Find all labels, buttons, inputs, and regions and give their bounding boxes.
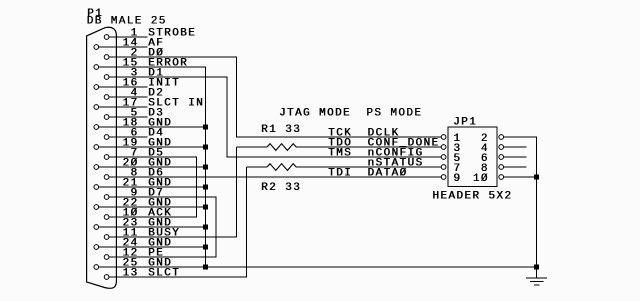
junction 21 GND [203, 185, 208, 190]
wire D0 to TCK/DCLK (vertical) [236, 57, 237, 138]
junction 24 GND [203, 245, 208, 250]
P1 pin 1Ø (ACK) [104, 208, 197, 220]
wire D1 to TMS/nCONFIG (vertical) [227, 77, 228, 158]
P1 pin 19 (GND) [94, 138, 206, 150]
svg-text:9: 9 [453, 173, 461, 185]
wire TMS/nCONFIG row [227, 157, 441, 158]
JP1 pin 4 [481, 143, 527, 155]
resistor R2 33 [267, 164, 296, 171]
svg-text:R2 33: R2 33 [261, 182, 301, 194]
P1 pin 17 (SLCT IN) [94, 98, 204, 110]
svg-text:13: 13 [122, 268, 138, 280]
wire TDO/CONF_DONE row (right of R1) [296, 147, 441, 148]
JP1 pin 8 [481, 163, 527, 175]
wire JP1 pin2 to ground (vertical) [536, 137, 537, 268]
svg-text:DB MALE 25: DB MALE 25 [87, 16, 167, 28]
junction 20 GND [203, 165, 208, 170]
wire ERROR to GND bus (vertical) [205, 67, 206, 268]
header JP1 body [448, 127, 497, 187]
svg-text:SLCT: SLCT [148, 268, 180, 280]
svg-text:HEADER 5X2: HEADER 5X2 [432, 191, 512, 203]
svg-text:PS MODE: PS MODE [366, 108, 422, 120]
JP1 pin 9 [441, 173, 461, 185]
P1 pin 15 (ERROR) [94, 58, 206, 70]
junction 25 GND [203, 265, 208, 270]
JP1 pin 6 [481, 153, 527, 165]
P1 pin 8 (D6) [104, 168, 442, 180]
JP1 pin 1 [441, 133, 461, 145]
ground symbol [526, 277, 547, 285]
wire TDO/CONF_DONE row (left of R1) [237, 147, 268, 148]
junction 19 GND [203, 145, 208, 150]
junction 22 GND [203, 205, 208, 210]
P1 pin 3 (D1) [104, 68, 227, 80]
wire nSTATUS row (left of R2) [246, 167, 267, 168]
wire D7 to PE (loopback vertical) [216, 197, 217, 258]
P1 pin 24 (GND) [94, 238, 206, 250]
JP1 pin 5 [441, 153, 461, 165]
junction ground wire / 25 GND [534, 265, 539, 270]
wire nSTATUS row (right of R2) [296, 167, 441, 168]
JP1 pin 7 [441, 163, 461, 175]
JP1 pin 3 [441, 143, 461, 155]
svg-text:TMS: TMS [328, 148, 352, 160]
ground symbol stub [536, 267, 537, 277]
P1 pin 25 (GND) [94, 258, 537, 270]
P1 pin 14 (AF) [94, 38, 164, 50]
svg-text:1Ø: 1Ø [473, 173, 489, 185]
svg-text:TDI: TDI [328, 168, 352, 180]
JP1 pin 2 [481, 133, 537, 145]
P1 pin 23 (GND) [94, 218, 206, 230]
P1 pin 7 (D5) [104, 148, 197, 160]
junction JP1 pin 10 / ground wire [534, 175, 539, 180]
wire TCK/DCLK row [237, 137, 442, 138]
P1 pin 12 (PE) [104, 248, 216, 260]
P1 pin 13 (SLCT) [104, 268, 247, 280]
P1 pin 22 (GND) [94, 198, 206, 210]
P1 pin 16 (INIT) [94, 78, 180, 90]
junction 18 GND [203, 125, 208, 130]
P1 pin 5 (D3) [104, 108, 164, 120]
P1 pin 11 (BUSY) [104, 228, 237, 240]
svg-text:DATAØ: DATAØ [367, 168, 407, 180]
wire D5 to ACK (loopback vertical) [196, 157, 197, 218]
wire TDO/CONF_DONE to BUSY (vertical) [236, 147, 237, 238]
svg-text:R1 33: R1 33 [261, 124, 301, 136]
P1 pin 1 (STROBE) [104, 28, 196, 40]
P1 pin 9 (D7) [104, 188, 216, 200]
wire nSTATUS to SLCT (vertical) [246, 167, 247, 278]
P1 pin 2 (DØ) [104, 48, 237, 60]
P1 pin 4 (D2) [104, 88, 164, 100]
P1 pin 6 (D4) [104, 128, 164, 140]
resistor R1 33 [267, 144, 296, 151]
svg-text:JP1: JP1 [453, 117, 477, 129]
junction 23 GND [203, 225, 208, 230]
JP1 pin 1Ø [473, 173, 537, 185]
connector P1 DB MALE 25 outline [87, 27, 117, 288]
P1 pin 2Ø (GND) [94, 158, 206, 170]
svg-text:JTAG MODE: JTAG MODE [279, 108, 351, 120]
P1 pin 21 (GND) [94, 178, 206, 190]
P1 pin 18 (GND) [94, 118, 206, 130]
